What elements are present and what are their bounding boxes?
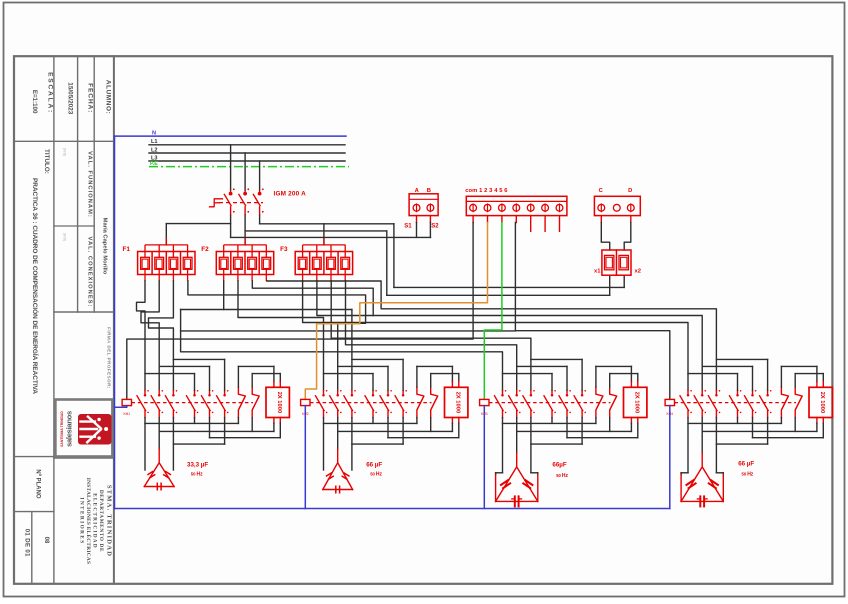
wire t5 unused [544, 216, 546, 232]
svg-text:IGM 200 A: IGM 200 A [274, 190, 307, 197]
terminal block com 1 2 3 4 5 6 [466, 196, 567, 215]
contactor K1 coil [122, 399, 131, 405]
group K2 pole 1 [323, 390, 325, 394]
svg-text:D: D [628, 188, 632, 194]
svg-text:INSTALACIONES ELÉCTRICAS: INSTALACIONES ELÉCTRICAS [85, 478, 93, 564]
capacitor bank delta 66 [323, 463, 353, 490]
wire F2b to G2-L1 [238, 281, 324, 391]
breaker IGM 200 A [224, 190, 261, 215]
svg-text:salesianos: salesianos [65, 411, 74, 447]
group K4 upper taps [737, 374, 739, 391]
group K1 pole 3 [172, 390, 174, 394]
wire F3c to G3-L3 [331, 281, 531, 391]
svg-text:Hz: Hz [197, 472, 204, 478]
svg-text:2X 1000: 2X 1000 [276, 392, 282, 414]
group K1 upper taps [194, 374, 196, 391]
wire S1 [416, 216, 418, 223]
wire com stub [472, 216, 474, 223]
group K2 pole 4 [372, 390, 374, 394]
svg-text:2X 1000: 2X 1000 [454, 392, 460, 414]
group K2 aux contact 2 [431, 387, 438, 418]
group K3 pole 6 [581, 390, 583, 394]
group K3 coil N connection (blue) [483, 406, 485, 509]
contactor K2 coil [301, 399, 310, 405]
wire F2c join [252, 281, 373, 316]
group K2 aux contact 1 [417, 387, 424, 418]
svg-text:2X 1000: 2X 1000 [633, 392, 639, 414]
group K1 lower links [194, 418, 196, 424]
svg-text:08: 08 [43, 537, 49, 544]
group K4 pole 6 [767, 390, 769, 394]
wire com to K1 coil [127, 223, 473, 400]
group K3 pole 3 [530, 390, 532, 394]
group K1 coil N connection (blue) [115, 406, 127, 408]
wire t4 unused [530, 216, 532, 232]
svg-text:PRACTICA 36 : CUADRO DE COMPEN: PRACTICA 36 : CUADRO DE COMPENSACIÓN DE … [31, 178, 40, 394]
wire pole2 to x1 [387, 294, 610, 296]
wire t1 orange to K2 coil [305, 223, 487, 400]
svg-text:com 1 2 3 4 5 6: com 1 2 3 4 5 6 [465, 188, 508, 194]
wire F1b to G1-L2 [141, 281, 159, 391]
svg-text:E=1:100: E=1:100 [31, 90, 38, 114]
wire L3 tap to IGM [259, 161, 261, 190]
wire t1 stub [487, 216, 489, 223]
group K3 pole 1 [502, 390, 504, 394]
bus L3 [149, 160, 345, 162]
wire N drop left [114, 136, 116, 508]
group K2 pole 2 [337, 390, 339, 394]
wire F2a to G2-L3 and G3-L1 [223, 281, 225, 310]
group K1 aux contact 1 [238, 387, 245, 418]
svg-text:KM1: KM1 [124, 412, 131, 416]
group K3 pole 5 [566, 390, 568, 394]
capacitor bank delta 33,3 [144, 463, 174, 487]
wire C to x1 [600, 216, 602, 223]
group K2 aux-CX links [416, 366, 418, 387]
capacitor unit CX1000 K2 [445, 387, 468, 417]
group K2 linkage dashed [310, 402, 432, 404]
svg-text:TITULO:: TITULO: [43, 149, 50, 174]
svg-text:N: N [152, 130, 156, 136]
breaker linkage dashed [219, 202, 263, 204]
group K4 capacitor feeds [687, 418, 689, 473]
capacitor bank delta 66 [495, 475, 497, 502]
wire t3 stub [515, 216, 517, 223]
svg-text:50: 50 [370, 472, 375, 477]
svg-text:50: 50 [556, 473, 561, 478]
capacitor bank delta 66 [680, 475, 682, 502]
group K3 pole 2 [516, 390, 518, 394]
group K4 pole 4 [737, 390, 739, 394]
group K1 capacitor feeds [144, 418, 146, 470]
svg-text:DEPARTAMENTO DE: DEPARTAMENTO DE [98, 490, 104, 552]
group K1 aux contact 2 [252, 387, 259, 418]
svg-text:VAL. CONEXIONES:: VAL. CONEXIONES: [87, 237, 93, 308]
wire IGM pole2 out [244, 215, 246, 245]
wire N bottom run [115, 508, 670, 510]
svg-text:María Capelo Morillo: María Capelo Morillo [102, 218, 108, 275]
wire F1c to G1-L3 [149, 281, 174, 391]
svg-text:66 µF: 66 µF [366, 461, 382, 468]
fuse block F2 [216, 238, 273, 281]
contactor K3 coil [480, 399, 489, 405]
group K3 linkage dashed [489, 402, 611, 404]
svg-text:ALUMNO:: ALUMNO: [105, 80, 112, 114]
wire pole3 to x2 [394, 286, 624, 288]
wire S2 [429, 216, 431, 223]
capacitor unit CX1000 K3 [624, 387, 647, 417]
svg-text:66µF: 66µF [552, 461, 566, 468]
group K3 aux contact 1 [596, 387, 603, 418]
group K2 pole 5 [387, 390, 389, 394]
group K4 pole 3 [715, 390, 717, 394]
wire IGM pole3 out [259, 215, 261, 224]
svg-text:Nº PLANO: Nº PLANO [35, 469, 41, 499]
svg-text:FECHA:: FECHA: [87, 83, 94, 113]
svg-text:66 µF: 66 µF [738, 461, 754, 468]
group K3 capacitor feeds [502, 418, 504, 473]
wire F3d to G3-L2 [346, 281, 517, 391]
group K4 lower links [737, 418, 739, 424]
svg-text:F3: F3 [280, 246, 288, 253]
bus N (blue) [115, 135, 347, 137]
terminal block C D [594, 196, 640, 215]
group K2 upper taps [372, 374, 374, 391]
svg-text:FIRMA DEL PROFESOR:: FIRMA DEL PROFESOR: [107, 327, 112, 389]
group K2 capacitor feeds [323, 418, 325, 470]
svg-text:L2: L2 [151, 147, 158, 153]
svg-text:x2: x2 [635, 269, 641, 275]
wire t3 to K4 coil [515, 223, 669, 400]
wire t2 green to K3 coil [484, 223, 502, 400]
svg-text:ESCALA:: ESCALA: [47, 72, 54, 114]
bus L2 [149, 152, 345, 154]
contactor K4 coil [665, 399, 674, 405]
svg-text:S2: S2 [431, 224, 439, 230]
wire L1 tap to IGM [230, 145, 232, 190]
svg-text:50: 50 [191, 472, 196, 477]
svg-text:Hz: Hz [376, 472, 383, 478]
svg-text:Hz: Hz [562, 473, 569, 479]
wire D to x2 [630, 216, 632, 223]
breaker manual operator [210, 199, 223, 207]
group K4 linkage dashed [675, 402, 797, 404]
capacitor unit CX1000 K1 [266, 387, 289, 417]
svg-text:15/05/2023: 15/05/2023 [67, 82, 74, 114]
svg-text:B: B [427, 188, 431, 194]
fuse block F1 [138, 238, 195, 281]
group K4 pole 5 [752, 390, 754, 394]
svg-text:(N-5): (N-5) [63, 233, 67, 241]
group K1 pole 6 [224, 390, 226, 394]
bus PE (green dash-dot) [149, 166, 349, 168]
svg-text:SANTÍSIMA TRINIDAD: SANTÍSIMA TRINIDAD [59, 411, 64, 447]
group K4 aux contact 1 [781, 387, 788, 418]
wire F1a to G1-L1 [137, 281, 146, 391]
svg-text:2X 1000: 2X 1000 [819, 392, 825, 414]
wire F3a to G4-L1 [303, 281, 688, 391]
group K4 aux-CX links [780, 366, 782, 387]
svg-text:(N-5): (N-5) [63, 148, 67, 156]
wire branch to K4 coil line [181, 330, 516, 332]
group K2 pole 6 [402, 390, 404, 394]
wire t2 stub [501, 216, 503, 223]
svg-text:01 DE 01: 01 DE 01 [24, 529, 30, 557]
group K3 pole 4 [551, 390, 553, 394]
group K2 pole 3 [351, 390, 353, 394]
svg-text:STMA. TRINIDAD: STMA. TRINIDAD [106, 485, 113, 557]
svg-text:50: 50 [742, 471, 747, 476]
svg-text:P.E: P.E [150, 161, 158, 167]
wire F3b to G4-L2 [317, 281, 702, 391]
svg-text:x1: x1 [594, 269, 601, 275]
group K3 aux-CX links [595, 366, 597, 387]
wire F2d to G4-L3 [267, 281, 717, 391]
title block grid [53, 56, 55, 584]
svg-text:33,3 µF: 33,3 µF [187, 461, 208, 468]
group K3 upper taps [551, 374, 553, 391]
fuse block F3 [295, 238, 352, 281]
group K1 linkage dashed [132, 402, 254, 404]
group K4 coil N connection (blue) [669, 406, 671, 509]
svg-text:VAL. FUNCIONAM:: VAL. FUNCIONAM: [87, 151, 93, 218]
svg-text:Hz: Hz [747, 471, 754, 477]
wire L2 tap to IGM [244, 153, 246, 190]
group K4 pole 1 [687, 390, 689, 394]
group K1 pole 4 [194, 390, 196, 394]
group K3 aux contact 2 [610, 387, 617, 418]
group K1 pole 5 [209, 390, 211, 394]
wire t6 unused [559, 216, 561, 232]
salesianos logo [55, 400, 112, 457]
group K4 aux contact 2 [795, 387, 802, 418]
group K4 pole 2 [701, 390, 703, 394]
group K2 coil N connection (blue) [304, 406, 306, 509]
bus L1 [149, 144, 345, 146]
group K2 lower links [372, 418, 374, 424]
group K1 aux-CX links [237, 366, 239, 387]
wire pole1 to S1 S2 [231, 236, 431, 238]
terminal block A B [409, 194, 438, 216]
svg-text:ELECTRICIDAD: ELECTRICIDAD [92, 493, 98, 549]
svg-text:F2: F2 [201, 246, 209, 253]
fuse holder x1 x2 [602, 250, 631, 275]
svg-text:INTERIORES: INTERIORES [79, 497, 85, 544]
wire IGM pole1 out [230, 215, 232, 237]
group K1 pole 2 [158, 390, 160, 394]
svg-text:S1: S1 [404, 224, 412, 230]
group K1 pole 1 [144, 390, 146, 394]
wire F1d to G2-L2 [188, 281, 366, 391]
svg-text:F1: F1 [123, 246, 131, 253]
capacitor unit CX1000 K4 [809, 387, 832, 417]
svg-text:L1: L1 [151, 139, 158, 145]
group K3 lower links [551, 418, 553, 424]
